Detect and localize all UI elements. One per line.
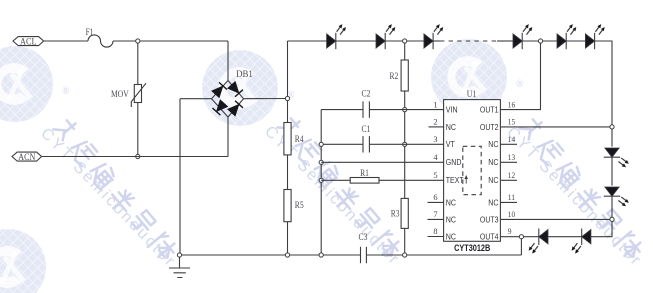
svg-text:15: 15 [508,118,515,127]
svg-text:12: 12 [508,171,515,180]
LED D8 [604,187,629,206]
svg-text:8: 8 [433,227,437,236]
svg-text:NC: NC [446,214,456,224]
svg-text:10: 10 [508,210,515,219]
svg-text:9: 9 [508,227,512,236]
wire LED chain start [288,40,327,42]
wire VIN line with C2 [321,109,363,111]
wire ACN to bridge bottom column [42,156,228,158]
wire D10 to rail corner [591,236,594,238]
svg-text:NC: NC [488,157,498,167]
LED D9 [529,229,548,254]
svg-text:NC: NC [446,122,456,132]
svg-text:CYT Semiconductor: CYT Semiconductor [261,123,403,269]
junction column VT line [403,142,407,146]
pin 14 stub [500,143,517,145]
dashed internal box U1 [463,146,481,194]
wire R3 to bottom rail [404,228,406,255]
wire bridge AC bottom rise [227,117,229,157]
terminal ACN [12,152,42,161]
junction R2 VIN [403,108,407,112]
wire bridge DC plus [244,98,288,100]
wire D1 to D2 [336,40,376,42]
wire D4 to junction [522,40,557,42]
svg-text:OUT2: OUT2 [480,122,499,132]
svg-text:6: 6 [433,193,437,202]
wire rail up to OUT4 node [520,239,522,255]
junction rail ground [177,253,181,257]
svg-text:DB1: DB1 [236,69,253,79]
junction LED chain to OUT1 [538,39,542,43]
LED D10 [572,229,591,254]
wire dashed to D4 [497,40,513,42]
junction left rail TEXT line [319,178,323,182]
junction rail left rail [319,253,323,257]
svg-text:NC: NC [488,139,498,149]
svg-text:C2: C2 [362,89,371,99]
svg-text:2: 2 [433,118,437,127]
resistor R5 [284,190,291,222]
svg-text:GND: GND [446,157,462,167]
svg-text:F1: F1 [86,27,94,37]
svg-text:C1: C1 [362,124,371,134]
svg-text:TEXT: TEXT [446,175,464,185]
svg-text:NC: NC [446,197,456,207]
svg-text:R1: R1 [360,168,369,178]
wire junction to R2 [404,43,406,60]
ground rail [180,254,361,256]
wire fuse to bridge top column [113,40,228,42]
wire DC minus down to ground rail [179,99,181,255]
svg-text:R3: R3 [391,209,400,219]
svg-text:R5: R5 [295,200,304,210]
wire dashed segment of LED chain [440,40,497,42]
bridge rectifier DB1 [211,69,252,117]
svg-text:ACL: ACL [20,36,37,46]
resistor R4 [284,123,291,155]
pin 11 stub [500,201,517,203]
svg-text:NC: NC [488,197,498,207]
fuse F1 [88,35,113,47]
wire OUT2 to right rail [500,126,612,128]
svg-text:OUT4: OUT4 [480,231,499,241]
wire OUT3 to right rail [500,218,612,220]
junction OUT3 rail [610,217,614,221]
resistor R2 [401,60,408,91]
TEXT pin arrow inside U1 [465,178,467,184]
junction left rail GND line [319,160,323,164]
wire OUT4 to LED D9 [524,236,539,238]
svg-text:1: 1 [433,100,437,109]
wire TEXT line with R1 [321,179,350,181]
svg-text:3: 3 [433,135,437,144]
junction MOV bottom [136,154,140,158]
svg-text:VIN: VIN [446,105,458,115]
wire column VT to R3 [404,146,406,198]
svg-text:14: 14 [508,135,516,144]
wire D3 solid stub [433,40,440,42]
svg-text:R4: R4 [295,134,304,144]
wire D7 to D8 [611,157,613,185]
junction LED chain to R2 [403,39,407,43]
svg-text:11: 11 [508,193,515,202]
ground symbol [169,257,190,278]
wire OUT1 to LED chain [500,43,540,110]
junction MOV top [136,39,140,43]
wire R2 to VIN line [404,91,406,110]
pin 8 stub [428,236,444,238]
svg-text:MOV: MOV [111,89,129,99]
pin 13 stub [500,161,517,163]
junction rail R3 [403,253,407,257]
wire R4 to R5 [287,155,289,190]
svg-text:OUT3: OUT3 [480,214,499,224]
svg-text:5: 5 [433,171,437,180]
wire down to MOV [137,43,139,85]
pin 6 stub [428,201,444,203]
junction rail R5 [285,253,289,257]
svg-text:U1: U1 [467,89,477,99]
svg-text:NC: NC [446,231,456,241]
pin 7 stub [428,218,444,220]
wire D6 to right rail corner [595,41,612,127]
svg-text:NC: NC [488,175,498,185]
wire D2 to junction [385,40,424,42]
wire VT line with C1 [321,143,443,145]
wire junction to R4 [287,101,289,123]
wire R2R3 column VIN to VT [404,112,406,145]
pin 12 stub [500,179,517,181]
svg-text:7: 7 [433,210,437,219]
svg-text:VT: VT [446,139,455,149]
terminal ACL [13,37,44,46]
junction OUT4 node [519,235,523,239]
svg-text:ACN: ACN [18,152,35,162]
junction OUT2 rail [610,125,614,129]
wire MOV to ACN line [137,103,139,157]
wire GND line [321,161,443,163]
wire D9 to D10 [548,236,582,238]
svg-text:®: ® [62,86,70,97]
wire bridge AC top drop [227,41,229,81]
resistor R3 [401,198,408,228]
wire ACL to fuse [44,40,88,42]
svg-text:OUT1: OUT1 [480,105,499,115]
wire D5 to D6 [566,40,585,42]
op-amp U1 CYT3012B body [444,100,501,242]
LED D1 [327,24,346,49]
LED D6 [585,24,604,49]
wire left rail [320,110,322,255]
svg-text:4: 4 [433,153,438,162]
wire bridge DC minus [180,98,212,100]
capacitor C2 [362,101,364,117]
LED D7 [604,148,629,167]
resistor R1 [350,178,379,184]
capacitor C3 [360,247,362,263]
varistor MOV [134,85,141,103]
svg-text:®: ® [516,79,524,90]
wire rail OUT3 down to bottom LED row [594,222,612,237]
junction left rail VT [319,142,323,146]
LED D5 [557,24,576,49]
capacitor C1 [362,136,364,152]
svg-text:R2: R2 [390,71,399,81]
wire R5 to bottom rail [287,222,289,255]
svg-text:C3: C3 [359,232,368,242]
pin 2 stub [429,126,444,128]
junction DC plus node [285,96,289,100]
wire OUT4 from IC [500,236,519,238]
svg-text:16: 16 [508,100,515,109]
wire DC plus up to LED chain [287,41,289,96]
LED D3 [424,24,443,49]
svg-text:CYT Semiconductor: CYT Semiconductor [37,125,179,271]
wire D8 to OUT3 junction [611,196,613,219]
svg-text:13: 13 [508,153,515,162]
wire rail OUT2 to LED D7 [611,129,613,147]
svg-text:CYT3012B: CYT3012B [454,243,490,253]
LED D4 [513,24,532,49]
LED D2 [376,24,395,49]
